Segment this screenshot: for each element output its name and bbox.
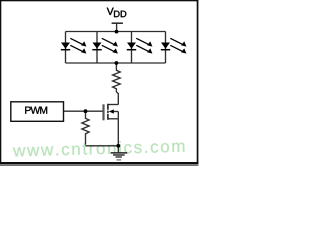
wire LED branch 1 — [65, 32, 67, 64]
resistor R1 ballast — [113, 63, 121, 92]
wire LED branch 3 — [131, 32, 133, 64]
LED D4 — [161, 38, 187, 53]
junction dot gate / pulldown — [84, 109, 88, 113]
wire drain jog — [116, 92, 118, 105]
channel segment drain — [107, 104, 109, 110]
wire top bus — [66, 31, 166, 33]
resistor R2 gate pulldown — [82, 111, 89, 145]
junction dot at VDD bus — [115, 30, 119, 34]
wire bottom rail — [66, 62, 166, 64]
channel segment body — [107, 111, 109, 114]
junction dot bottom rail / resistor — [115, 61, 119, 65]
junction dot source / ground — [116, 144, 120, 148]
wire VDD stem — [116, 23, 118, 31]
border frame — [0, 0, 198, 164]
ground — [111, 153, 128, 160]
wire pulldown to ground — [86, 145, 119, 147]
wire ground stub — [117, 146, 119, 153]
LED D1 — [61, 38, 87, 53]
watermark www.cntronics.com — [13, 139, 185, 156]
wire LED branch 4 — [165, 32, 167, 64]
wire source stub — [108, 118, 118, 120]
LED D3 — [127, 38, 153, 53]
LED D2 — [92, 38, 118, 53]
wire drain stub — [108, 104, 118, 106]
wire source vertical — [117, 112, 119, 146]
body lead — [113, 111, 118, 113]
PWM block U1 — [11, 102, 64, 122]
transistor Q1 MOSFET — [104, 104, 119, 121]
node VDD label — [107, 8, 127, 17]
channel segment source — [107, 114, 109, 120]
wire gate lead — [64, 110, 103, 112]
wire LED branch 2 — [96, 32, 98, 64]
gate bar — [102, 104, 104, 120]
node VDD terminal bar — [112, 22, 123, 24]
body arrow head — [109, 109, 114, 113]
